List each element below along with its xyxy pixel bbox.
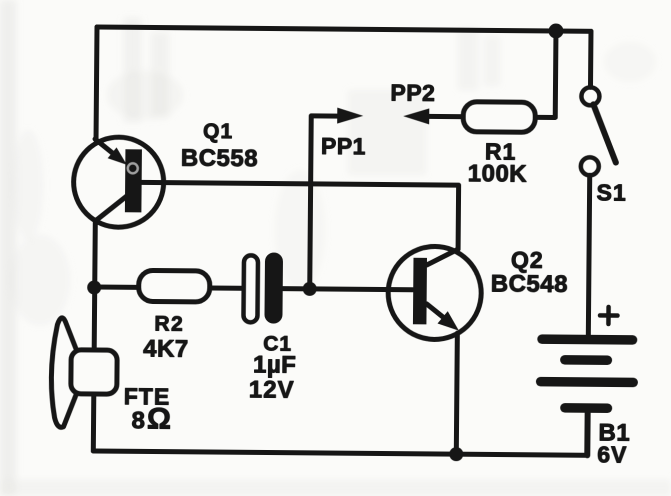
capacitor C1 <box>243 252 283 323</box>
transistor Q1 <box>73 137 164 228</box>
wire node A to Q2 base <box>310 286 413 292</box>
svg-text:PP1: PP1 <box>321 133 366 159</box>
wire C1 to node A <box>283 286 310 291</box>
battery B1 <box>536 334 639 413</box>
wire R1 to top rail <box>535 31 556 118</box>
wire R2 to C1 <box>210 285 244 290</box>
svg-text:6V: 6V <box>597 441 627 467</box>
svg-text:100K: 100K <box>468 160 528 188</box>
resistor R2 <box>139 270 210 302</box>
svg-text:4K7: 4K7 <box>143 335 189 362</box>
junction dot node A <box>303 282 317 296</box>
svg-text:8Ω: 8Ω <box>131 402 173 435</box>
wire Q2 emitter to bottom rail <box>456 333 457 454</box>
wire battery to bottom rail <box>584 411 590 455</box>
junction dot left <box>87 280 101 294</box>
svg-text:BC558: BC558 <box>181 145 258 173</box>
switch S1 <box>581 87 617 175</box>
wire Q1 collector down left rail <box>93 220 95 451</box>
wire right rail top to switch <box>588 31 593 87</box>
svg-text:Q1: Q1 <box>203 120 233 143</box>
svg-text:PP2: PP2 <box>390 80 435 106</box>
svg-text:1µF: 1µF <box>253 351 297 378</box>
wire Q1 emitter to top rail <box>94 27 100 140</box>
svg-text:Q2: Q2 <box>511 247 544 273</box>
wire bottom rail <box>93 451 587 455</box>
wire Q1 base to Q2 collector <box>141 182 459 249</box>
resistor R1 <box>463 102 535 133</box>
junction dot top <box>548 23 563 38</box>
probe point PP2 arrow <box>403 108 463 125</box>
probe point PP1 arrow <box>310 107 364 289</box>
svg-text:BC548: BC548 <box>491 270 568 298</box>
svg-text:S1: S1 <box>596 179 626 205</box>
junction dot bottom <box>449 447 463 461</box>
svg-text:12V: 12V <box>249 376 295 403</box>
transistor Q2 <box>388 246 482 340</box>
plus sign <box>600 307 618 324</box>
svg-text:R2: R2 <box>154 313 184 336</box>
wire top rail <box>97 27 591 31</box>
speaker FTE <box>51 318 118 428</box>
wire left rail to R2 <box>95 284 139 289</box>
wire switch to battery <box>588 175 589 335</box>
